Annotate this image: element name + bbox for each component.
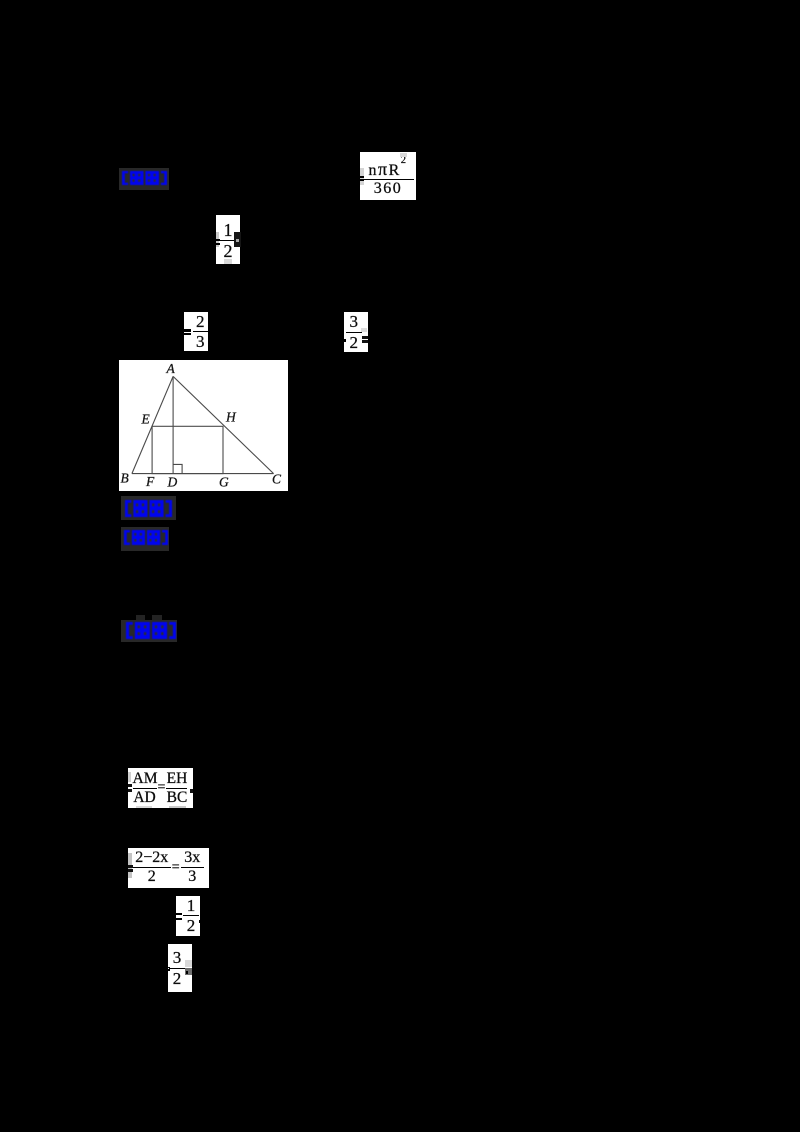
right angle mark at D — [173, 464, 182, 473]
line AB — [132, 376, 173, 473]
blue label 4 【解答】 — [126, 622, 176, 639]
rectangle EFGH — [152, 426, 223, 473]
svg-text:A: A — [166, 361, 176, 376]
svg-text:E: E — [141, 411, 151, 426]
equation image: 3/2 (second) — [168, 944, 192, 992]
equation image: = 2/3 — [184, 312, 208, 351]
svg-text:B: B — [121, 470, 129, 485]
equation image: = 1/2 (second) — [176, 896, 200, 936]
descender nubs above label 4 — [136, 615, 146, 620]
equation image: 3/2 (first) — [344, 312, 368, 352]
dark patch right edge of eq2 — [234, 232, 241, 247]
equation image: (2-2x)/2 = 3x/3 — [128, 848, 209, 888]
equation image: = nπR²/360 — [360, 152, 416, 200]
svg-text:D: D — [167, 474, 178, 489]
line AC — [173, 376, 274, 473]
highlight box label 3 — [121, 527, 169, 551]
highlight box label 1 — [119, 168, 169, 191]
equals sign overlapping eq1 left edge — [356, 176, 364, 178]
blue label 1 【考点】 — [122, 171, 167, 185]
svg-text:G: G — [219, 474, 229, 489]
highlight box label 4 — [121, 620, 178, 642]
svg-text:F: F — [145, 474, 155, 489]
equation image: AM/AD = EH/BC — [128, 768, 193, 808]
highlight box label 2 — [121, 496, 176, 520]
line BC — [132, 472, 274, 474]
blue label 3 【分析】 — [124, 530, 168, 545]
geometry figure box — [119, 360, 288, 491]
equation image: = 1/2 (first) — [216, 215, 240, 264]
svg-text:H: H — [225, 409, 237, 424]
svg-text:C: C — [272, 471, 282, 486]
artifact gray patches eq1 — [360, 168, 364, 185]
blue label 2 【专题】 — [125, 500, 172, 517]
altitude AD — [172, 376, 174, 473]
